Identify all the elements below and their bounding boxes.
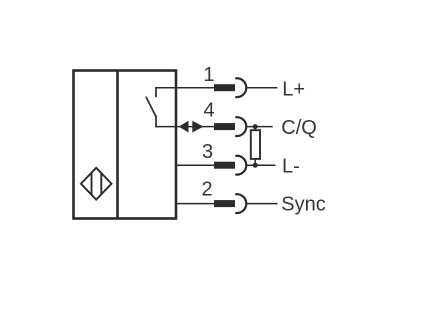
proximity sensor symbol (diamond) [81,168,112,200]
wire pin3 (body to contact) [176,164,215,166]
junction node L- [253,163,258,168]
pin 2 connector socket [235,194,246,213]
sensor body outline U1 [74,71,177,219]
svg-text:3: 3 [202,141,213,163]
wire L+ [246,87,277,89]
svg-text:L-: L- [282,156,300,178]
svg-text:4: 4 [203,100,214,122]
pin 1 contact [214,84,235,91]
junction node C/Q [253,124,258,129]
svg-text:C/Q: C/Q [281,117,317,139]
wire pin1 (switch to contact) [155,87,215,89]
pin 3 contact [214,162,235,169]
switch contact (normally open) [146,88,156,127]
sensor body divider [116,71,119,219]
wire C/Q [246,126,273,128]
pin 4 contact [214,123,235,130]
svg-text:L+: L+ [282,78,305,100]
svg-text:Sync: Sync [281,194,325,216]
wire Sync [246,203,277,205]
pin 1 connector socket [235,78,246,97]
svg-text:1: 1 [203,64,214,86]
svg-text:2: 2 [201,179,212,201]
wire resistor vertical [254,127,256,166]
pin 4 connector socket [235,117,246,136]
bidirectional signal arrows [179,121,204,133]
wire L- [246,164,275,166]
pin 3 connector socket [235,156,246,175]
wire pin2 (body to contact) [176,203,215,205]
pin 2 contact [214,200,235,207]
wire pin4 (switch to contact) [155,126,215,128]
resistor (external load) [251,130,260,159]
